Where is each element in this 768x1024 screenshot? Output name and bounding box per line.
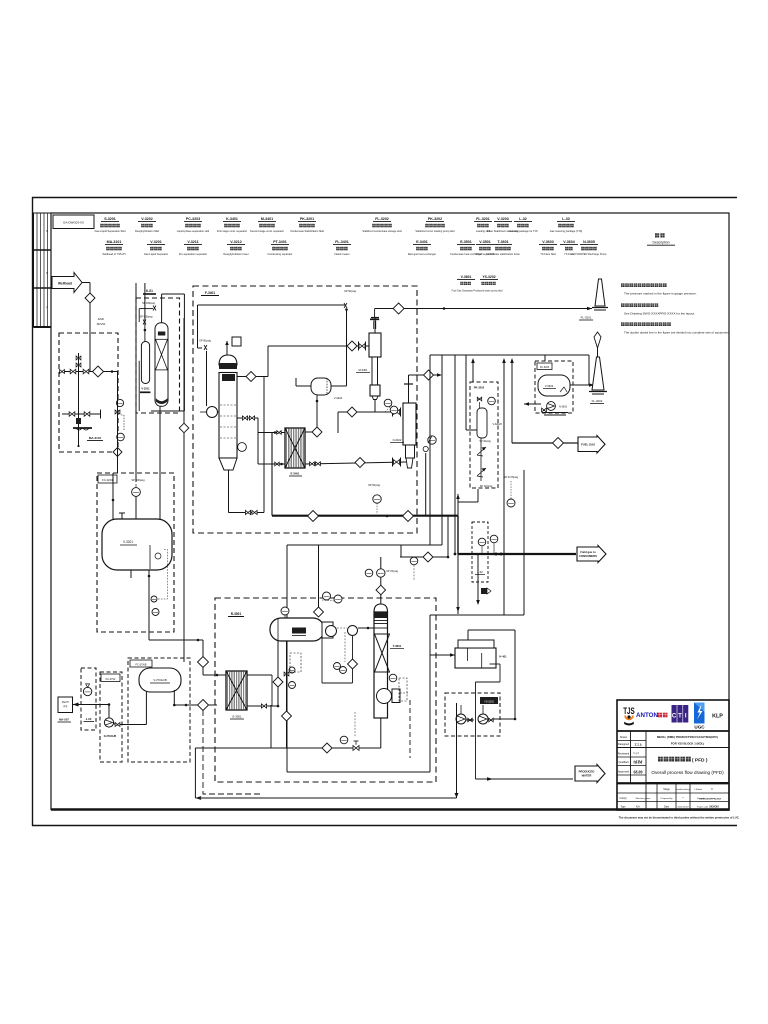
produced water pump skid YS-3202 [445,693,500,736]
svg-text:N: N [46,271,48,275]
svg-text:N-3402: N-3402 [393,438,402,442]
svg-text:metering package for TJS: metering package for TJS [508,229,537,233]
svg-text:Raw-gas heat exchanger: Raw-gas heat exchanger [408,252,436,256]
svg-text:E-3501: E-3501 [232,715,241,719]
note 1 [621,283,625,287]
overhead downcomer [263,377,265,513]
line from column to exchanger [237,417,258,419]
wellhead inlet arrow [52,273,82,293]
svg-text:YS-3202: YS-3202 [484,701,494,704]
svg-text:V-3604: V-3604 [563,240,574,244]
PSV cluster on thick line [425,453,427,516]
heat exchanger E-3501 crosshatched [226,671,247,710]
discharge to header [409,374,441,376]
gauge bubble near overhead [410,557,418,565]
feed pumps to column [326,626,337,637]
CTI logo purple blocks [672,705,677,723]
note 2 [621,303,625,307]
svg-text:C: C [672,714,677,720]
svg-text:A3+: A3+ [636,806,641,809]
svg-text:GA-DWG03-XX: GA-DWG03-XX [63,221,84,225]
svg-text:MEOH, (DME) PRODUCTION FACIL: MEOH, (DME) PRODUCTION FACILITIES(EPC) [657,735,718,739]
drum bottoms to exchanger line [277,641,279,706]
svg-text:T: T [678,714,682,720]
svg-text:PC-3203: PC-3203 [186,217,200,221]
svg-text:V-3701A/B: V-3701A/B [153,678,167,682]
main dashed box F-3401 [193,286,417,533]
svg-text:Gas-Liquid Separation Skid: Gas-Liquid Separation Skid [94,229,126,233]
svg-text:SP 110psig: SP 110psig [480,485,493,488]
svg-text:Prepared by: Prepared by [661,797,674,800]
svg-text:First stage cond. separator: First stage cond. separator [217,229,247,233]
svg-text:SP 60psig: SP 60psig [199,339,211,343]
svg-text:L-33: L-33 [562,217,569,221]
svg-text:Reviewed: Reviewed [618,752,630,756]
dosing pump N-3702 [104,718,113,727]
svg-text:Field gas to: Field gas to [580,550,596,554]
air cooler K-3401 [455,648,496,668]
svg-text:Condensate Stabilization Skid: Condensate Stabilization Skid [290,229,324,233]
bottom table [617,792,729,794]
svg-text:C: C [711,787,713,791]
dashed boundary segment [409,700,411,758]
svg-text:F-3401: F-3401 [205,291,215,295]
svg-text:N: N [46,229,48,233]
svg-text:T-3601: T-3601 [497,240,508,244]
injection pump box J-X2 [81,668,96,730]
svg-text:Unit(s): Unit(s) [619,797,626,800]
drum V-3603 [538,375,570,396]
svg-text:PK-3202: PK-3202 [428,217,442,221]
svg-text:UGC: UGC [694,725,705,730]
svg-text:Second stage cond. separator: Second stage cond. separator [250,229,284,233]
svg-text:FC-37A/B: FC-37A/B [136,664,147,667]
description header [655,233,659,237]
stabilizer column T-3601 [374,604,388,612]
separator package dashed box FC-3201 [97,473,174,632]
outer border frame [32,197,737,199]
svg-text:V-3501: V-3501 [479,240,490,244]
column bottoms line [228,470,230,513]
svg-text:V-3212: V-3212 [230,240,241,244]
svg-text:N-3605: N-3605 [583,240,595,244]
wire drum outlet to exchanger [148,580,150,640]
internal weir [149,545,151,569]
svg-text:The pressure marked in the fig: The pressure marked in the figure is gau… [624,292,697,296]
svg-text:FL-3201: FL-3201 [476,217,490,221]
svg-text:E-3401: E-3401 [290,472,299,476]
svg-text:MA-X07: MA-X07 [59,718,69,722]
svg-text:DWG-XXXXPFW-XXX: DWG-XXXXPFW-XXX [699,799,721,801]
PK-3201 dashed package box [136,298,180,413]
kettle reboiler in column base [377,689,392,704]
fuel gas outlet arrow [578,436,605,454]
svg-text:FL-3201: FL-3201 [581,316,592,320]
svg-text:V-3201: V-3201 [150,240,161,244]
riser to V-3211 [144,283,146,325]
svg-text:AUTOMATED Recharge Pump: AUTOMATED Recharge Pump [572,252,607,256]
wire wellhead to manifold [82,282,90,284]
svg-text:Fuel Gas Separator Produced w: Fuel Gas Separator Produced water pump s… [452,290,503,293]
svg-text:YS-3202: YS-3202 [482,275,495,279]
svg-text:2023.03.29: 2023.03.29 [678,807,690,809]
small gauge bubbles [384,399,392,407]
svg-text:Wellhead of YS5-2H: Wellhead of YS5-2H [103,252,126,256]
package boundary lower-left [203,710,260,794]
svg-text:K-401: K-401 [499,655,507,659]
svg-text:ESD: ESD [98,317,104,321]
long riser line [135,283,137,482]
svg-text:Wellhead: Wellhead [58,281,72,285]
svg-text:Type: Type [620,806,626,809]
svg-text:Approved: Approved [618,770,630,774]
svg-text:Meishan power: Meishan power [636,797,651,800]
svg-text:The document may not be dissem: The document may not be disseminated to … [619,816,740,820]
svg-text:Z.Lb: Z.Lb [634,743,641,747]
svg-text:Liquid-phase separation skid: Liquid-phase separation skid [177,229,210,233]
V-3212 bottoms line [159,406,161,520]
svg-text:FL-3202: FL-3202 [375,217,389,221]
drum bottom nozzle [130,570,132,578]
recycle line to bottom [456,703,458,798]
svg-text:M-3401: M-3401 [261,217,273,221]
svg-text:E-3401: E-3401 [416,240,428,244]
svg-text:FL-3401: FL-3401 [335,240,349,244]
manifold line 2 [62,413,101,415]
svg-text:XXXXXX: XXXXXX [709,806,719,809]
svg-text:SP 15psig: SP 15psig [386,569,398,573]
svg-text:KLP: KLP [712,714,723,720]
svg-text:See Drawing DWG-XXXXPRO-XXXX f: See Drawing DWG-XXXXPRO-XXXX for the lay… [624,312,695,316]
svg-text:V-3402: V-3402 [334,396,343,400]
svg-text:V-3211: V-3211 [141,387,150,391]
wire cooler outlet to produced water line [475,682,477,779]
column overhead [380,557,382,604]
wire to drum top [135,496,137,519]
manifold header line [60,371,118,373]
svg-text:FUEL GAS: FUEL GAS [581,442,595,446]
svg-text:K-01: K-01 [146,289,153,293]
svg-text:(inj): (inj) [63,706,67,708]
vessel V-3202X [477,408,487,438]
svg-text:Drawn: Drawn [620,735,628,739]
suction line w/ diamond + valve [268,345,369,347]
separator drum V-3201 [102,519,172,570]
vessel V-3211 [141,342,149,384]
compressor 2nd stage N-3402 [404,383,413,385]
flare drain leg [374,309,376,319]
drawing title cell [658,757,663,762]
drum bottoms to column bottoms line [286,641,288,748]
methanol tank box MA-X07 [58,697,73,713]
svg-text:PK-3201: PK-3201 [300,217,314,221]
svg-text:E-3501: E-3501 [460,240,472,244]
wire manifold down to separator box [117,372,119,474]
svg-text:MeOH: MeOH [62,702,69,704]
level bubbles [151,596,157,602]
svg-text:FOR YS5 BLOCK 1 (KDL): FOR YS5 BLOCK 1 (KDL) [671,742,704,746]
produced water outlet arrow [575,765,605,783]
field gas outlet arrow [577,546,606,563]
drum outlet nozzle [148,570,150,580]
solid utility loop box [287,544,442,546]
drum top bubble [281,607,289,615]
drum V-3402 [311,378,331,395]
long vertical line x184 [183,318,185,662]
HP gas header y355 [430,354,589,356]
svg-text:SP 830psig: SP 830psig [140,316,153,319]
pump skid box FC-3702 [100,672,122,762]
column top riser [226,341,228,355]
svg-text:ANTON: ANTON [636,712,658,719]
flare stack FL-3201 [595,279,605,306]
svg-text:SP 60psig: SP 60psig [344,289,356,293]
svg-text:Gas metering package (TJS): Gas metering package (TJS) [550,229,583,233]
svg-text:V-3211: V-3211 [187,240,198,244]
svg-text:K-3401: K-3401 [226,217,238,221]
svg-text:SDV01: SDV01 [97,322,106,326]
riser to field-gas line [457,516,459,554]
svg-text:PT-3401: PT-3401 [273,240,287,244]
svg-text:SP 830psig: SP 830psig [142,302,155,305]
svg-text:Dewghyhdration Skid: Dewghyhdration Skid [135,229,160,233]
svg-text:V-3603: V-3603 [545,384,554,388]
drum skid box FC-37XXA/B [128,658,190,762]
svg-text:Description: Description [653,241,670,245]
svg-text:Pre-separation separator: Pre-separation separator [179,252,207,256]
svg-text:V-3203: V-3203 [497,217,508,221]
bypass loop and drop to thick line [271,433,273,516]
field gas thick line [458,553,576,555]
UGC blue logo [694,703,705,724]
fuel gas line [512,442,553,444]
svg-text:N-3603: N-3603 [559,406,568,409]
heat exchanger E-3401 crosshatched [285,428,305,468]
column T-3401 [219,355,237,365]
svg-text:M-3401: M-3401 [358,368,368,372]
svg-text:V-3202: V-3202 [141,217,152,221]
flare KO drum skid FC-3203 [535,361,573,413]
svg-text:V-3601: V-3601 [461,275,472,279]
valve diamond [93,366,104,377]
svg-text:Stage: Stage [663,788,670,791]
revision strip left [34,213,52,327]
svg-text:YS Flare Skid: YS Flare Skid [540,252,556,256]
svg-text:S-3201: S-3201 [104,217,116,221]
internal recycle loop [161,294,163,323]
svg-text:PK-3202: PK-3202 [474,386,485,390]
stabilized condensate thick line [272,515,458,517]
svg-text:condensate stabilization tower: condensate stabilization tower [486,252,520,256]
manifold dashed box MA-3101 [59,333,118,452]
svg-text:L-32: L-32 [519,217,526,221]
valve symbol on wellhead line [85,293,95,303]
svg-text:J-X2: J-X2 [86,717,92,721]
flare KO pump [547,402,556,411]
drum vapor line [318,545,320,607]
manifold vertical [78,353,80,446]
wire bottoms drop [194,748,196,798]
column bottoms w/ control valve [380,718,382,748]
svg-text:Stabilized cond. loading pump: Stabilized cond. loading pump skid [415,229,455,233]
svg-text:MA-3101: MA-3101 [89,436,102,440]
svg-text:Detailed design: Detailed design [675,788,691,791]
packed tower V-3212 [155,323,168,407]
drawing number box top-left [53,215,94,229]
wire from separator to E-3501 [202,640,204,675]
svg-text:N-3702A/B: N-3702A/B [104,735,117,738]
title table [617,747,729,749]
note 3 [621,322,625,326]
feed drum V-3501A/B [270,618,324,641]
svg-text:SP 40psig: SP 40psig [479,440,491,443]
svg-text:MA-3101: MA-3101 [107,240,122,244]
svg-text:Gas-Liquid Separator: Gas-Liquid Separator [144,252,168,256]
svg-text:68.09: 68.09 [634,770,643,775]
wire drum to diamond [316,395,318,427]
PK-3202 package box [470,382,498,488]
svg-text:V-3202X: V-3202X [493,423,503,426]
spectacle blind [73,427,92,429]
svg-text:Project code: Project code [697,806,709,809]
flare stack FL-3202 with flame [594,332,601,348]
2nd stage suction line [305,462,406,464]
title block outer [617,700,729,810]
svg-text:PRODUCED: PRODUCED [579,770,595,774]
svg-text:R-3501: R-3501 [231,612,242,616]
instrument bubbles right of manifold [116,399,123,406]
overhead lines [400,556,448,558]
svg-text:Condensing separator: Condensing separator [267,252,292,256]
svg-text:CONSUMERS: CONSUMERS [579,554,597,558]
svg-text:G yl: G yl [633,751,638,755]
PIC bubble [132,488,141,497]
flare header line [375,308,592,310]
svg-text:Date: Date [664,806,670,809]
svg-text:Stabilized condensate storage: Stabilized condensate storage skid [362,229,402,233]
svg-text:WATER: WATER [582,774,592,778]
wire down to drum [346,309,348,386]
svg-text:V-3603: V-3603 [542,240,553,244]
vent fitting [232,337,241,346]
vertical headers [429,355,431,545]
svg-text:C Edition: C Edition [694,788,702,791]
inner border frame [51,213,729,810]
1st stage discharge [374,400,376,413]
svg-text:Designed: Designed [618,742,630,746]
metering skid box J-32 [472,522,488,582]
svg-text:The double dotted line in the: The double dotted line in the figure are… [624,331,730,335]
svg-text:FC-3203: FC-3203 [540,366,550,369]
svg-text:Overall process flow drawing (: Overall process flow drawing (PFD) [651,770,724,775]
reflux pump circle [207,407,218,418]
svg-text:( PFD ): ( PFD ) [692,758,708,764]
svg-text:T-3601: T-3601 [393,644,402,648]
svg-text:FC-3201: FC-3201 [102,478,113,482]
svg-text:Dewghyhdration tower: Dewghyhdration tower [223,252,248,256]
svg-text:SP 60psig: SP 60psig [368,483,380,487]
svg-text:Qualified: Qualified [618,760,629,764]
drum V-3701A/B [139,668,181,692]
compressor 1st stage M-3401 [371,317,379,319]
svg-text:SP 2175psig: SP 2175psig [504,476,519,479]
svg-text:Flastic heater: Flastic heater [334,252,349,256]
svg-text:SP 830psig: SP 830psig [131,478,145,482]
svg-text:ftHM: ftHM [633,761,642,765]
lower package dashed box R-3501 [215,598,436,782]
drum channel end [322,622,333,638]
svg-text:TJS: TJS [623,706,635,716]
overhead line to drum [198,304,347,306]
produced water line [476,778,574,780]
svg-text:V-3201: V-3201 [123,540,133,544]
drain branch [477,554,479,603]
spec break diamond [312,427,322,437]
svg-text:FC-3702: FC-3702 [106,678,116,681]
svg-text:FL-3202: FL-3202 [592,399,603,403]
